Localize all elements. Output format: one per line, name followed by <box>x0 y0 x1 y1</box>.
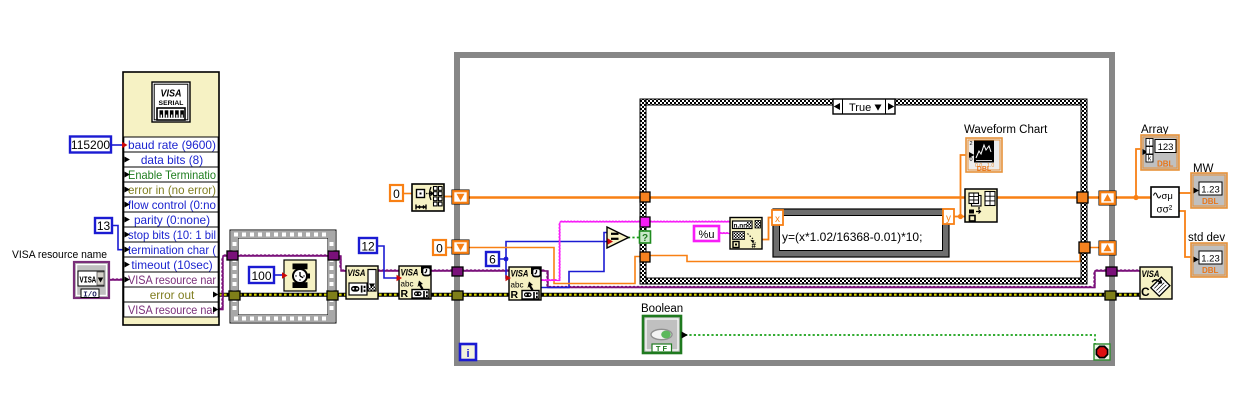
svg-text:Array: Array <box>1141 124 1169 136</box>
svg-text:error in (no error): error in (no error) <box>128 183 216 197</box>
svg-text:0: 0 <box>436 242 443 256</box>
property node row Enable Terminatio <box>124 167 218 182</box>
wire: blue 100 to Wait ms <box>274 274 283 276</box>
tunnel purple loop left <box>452 267 463 276</box>
svg-text:C: C <box>1141 285 1150 299</box>
svg-text:0: 0 <box>393 187 400 201</box>
constant 13 <box>95 218 112 233</box>
svg-text:123: 123 <box>1158 142 1174 153</box>
svg-text:6: 6 <box>489 253 496 267</box>
Equal? comparison node <box>607 227 629 248</box>
wire: orange mean output to MW indicator <box>1179 192 1192 194</box>
svg-text:baud rate (9600): baud rate (9600) <box>128 138 216 152</box>
wire: error cluster (olive/black dashed) from property node error out through sequence, VISA nodes, loop, to VISA Close <box>219 293 1141 297</box>
tunnel magenta case left (string) <box>640 217 650 227</box>
case selector terminal ? <box>640 231 651 243</box>
shift register left 2 (down arrow) <box>452 240 469 254</box>
formula node <box>773 209 949 257</box>
svg-text:VISA: VISA <box>161 88 182 100</box>
svg-text:y=(x*1.02/16368-0.01)*10;: y=(x*1.02/16368-0.01)*10; <box>782 230 922 244</box>
case selector label True <box>833 99 895 114</box>
svg-text:Waveform Chart: Waveform Chart <box>964 124 1048 136</box>
svg-text:VISA: VISA <box>401 268 419 278</box>
svg-text:R: R <box>511 289 519 301</box>
svg-text:DBL: DBL <box>977 166 992 173</box>
Waveform Chart terminal <box>966 138 1002 172</box>
tunnel purple sequence left <box>227 251 238 260</box>
svg-text:Enable Terminatio: Enable Terminatio <box>128 168 216 182</box>
svg-text:2: 2 <box>970 141 973 147</box>
Replace Array Subset function <box>965 189 997 222</box>
coercion arrow baud rate input <box>122 142 128 148</box>
constant 0 (scalar) <box>433 240 446 255</box>
VISA Configure Serial Port expanded node <box>123 72 219 325</box>
wire: VISA resource purple from property node bottom out, up into sequence, through VISA nodes into loop <box>218 256 511 310</box>
wire: magenta string %u to Scan From String <box>719 233 731 235</box>
tunnel olive loop left <box>452 291 463 300</box>
coercion arrow VISA Read 1 byte count <box>397 275 403 281</box>
svg-text:SERIAL: SERIAL <box>159 100 184 107</box>
property node row error out <box>124 287 218 302</box>
constant 12 <box>359 238 377 253</box>
svg-text:VISA resource nar: VISA resource nar <box>128 303 216 317</box>
Boolean control terminal <box>643 316 681 353</box>
svg-text:DBL: DBL <box>1202 197 1219 206</box>
svg-text:True: True <box>849 102 871 114</box>
wire: VISA resource purple from control to property node <box>107 279 125 281</box>
svg-text:VISA resource nar: VISA resource nar <box>128 273 216 287</box>
tunnel purple loop right <box>1106 267 1117 276</box>
svg-text:abc: abc <box>511 280 525 290</box>
svg-text:abc: abc <box>401 279 415 289</box>
svg-text:?: ? <box>642 233 648 244</box>
junction blue 6 <box>504 257 509 262</box>
svg-text:y: y <box>946 213 951 224</box>
property node row baud rate (9600) <box>124 137 218 152</box>
wire: orange array shift register row through case to Replace Array Subset and right shift register <box>468 196 966 199</box>
tunnel orange case right top (array) <box>1077 192 1088 203</box>
svg-text:1.23: 1.23 <box>1201 185 1220 196</box>
Mean StdDev Variance VI <box>1151 187 1179 217</box>
wire: blue 6 to VISA Read 2 byte count and Equal node <box>499 259 508 278</box>
svg-text:k: k <box>1148 156 1152 163</box>
wire: blue 115200 to baud rate <box>111 144 122 146</box>
case structure border (checker pattern) <box>640 99 1087 105</box>
loop iteration terminal i <box>460 344 476 360</box>
tunnel olive sequence right <box>327 291 338 300</box>
wire: blue return count VISA Read 2 to Equal top input <box>541 233 608 288</box>
wire: green boolean Equal out to case selector <box>628 237 641 239</box>
constant 0 (array init) <box>390 185 403 201</box>
svg-text:x: x <box>775 214 780 225</box>
svg-text:T F: T F <box>656 344 668 353</box>
VISA Close function <box>1140 267 1172 299</box>
constant 100 <box>249 267 274 283</box>
VISA resource name control <box>74 262 109 298</box>
wire: blue 12 to VISA Read 1 byte count <box>377 246 397 278</box>
svg-text:σμ: σμ <box>1162 191 1173 202</box>
tunnel orange case right bottom (scalar) <box>1079 242 1090 253</box>
coercion arrow Wait ms input <box>282 272 288 278</box>
svg-text:DBL: DBL <box>1202 266 1219 275</box>
wire: orange scan from string output to formula x input <box>762 218 773 240</box>
VISA Read 2 function <box>509 267 541 300</box>
svg-text:i: i <box>466 348 469 360</box>
svg-text:VISA: VISA <box>1142 269 1160 279</box>
while loop border <box>454 52 460 366</box>
property node row parity (0:none) <box>124 212 218 227</box>
svg-text:VISA: VISA <box>348 268 366 278</box>
svg-text:timeout (10sec): timeout (10sec) <box>131 258 212 272</box>
tunnel purple sequence right <box>328 251 339 260</box>
constant %u string <box>694 226 719 241</box>
svg-text:I/O: I/O <box>83 291 97 299</box>
constant 6 <box>486 252 499 266</box>
svg-text:error out: error out <box>150 288 195 302</box>
Array indicator terminal <box>1141 135 1179 170</box>
VISA Set I/O Buffer Size function <box>346 266 378 299</box>
svg-text:σσ²: σσ² <box>1157 205 1173 216</box>
svg-text:termination char (: termination char ( <box>128 243 216 257</box>
svg-text:%u: %u <box>699 229 715 241</box>
svg-text:VISA: VISA <box>511 269 529 279</box>
tunnel orange case left bottom (scalar) <box>640 252 650 262</box>
property node row stop bits (10: 1 bil <box>124 227 218 242</box>
svg-text:100: 100 <box>251 269 271 283</box>
svg-text:Boolean: Boolean <box>641 303 683 315</box>
tunnel olive sequence left <box>229 291 240 300</box>
junction orange y <box>958 214 963 219</box>
shift register right 2 (up arrow) <box>1099 241 1116 255</box>
svg-text:VISA: VISA <box>80 276 97 286</box>
svg-text:R: R <box>401 288 409 300</box>
formula node output y <box>943 209 954 224</box>
tunnel orange case left top (array) <box>640 192 650 202</box>
property node row flow control (0:no <box>124 197 218 212</box>
svg-text:115200: 115200 <box>71 138 110 152</box>
wire: VISA purple from VISA Read 2 out to loop right tunnel and VISA Close <box>541 271 1141 288</box>
VISA SERIAL header icon <box>152 82 190 122</box>
property node row timeout (10sec) <box>124 257 218 272</box>
svg-text:13: 13 <box>97 219 111 233</box>
MW indicator terminal <box>1191 173 1227 208</box>
constant 115200 <box>70 137 111 153</box>
svg-text:data bits (8): data bits (8) <box>141 153 203 167</box>
Scan From String function <box>730 218 762 250</box>
wire: orange scalar shift register 2 loop: dips under formula node <box>468 248 642 284</box>
svg-text:std dev: std dev <box>1188 232 1225 244</box>
coercion arrow VISA Read 2 byte count <box>506 275 512 281</box>
Wait ms function <box>284 260 316 291</box>
wire: orange 0 to Initialize Array <box>402 193 413 195</box>
Initialize Array function <box>412 184 444 211</box>
property node row VISA resource nar <box>124 302 218 317</box>
loop stop terminal <box>1094 344 1110 360</box>
wire: orange loop out to Array indicator and mean node <box>1116 196 1151 199</box>
flat sequence structure filmstrip border <box>230 230 336 323</box>
svg-text:0: 0 <box>970 157 973 163</box>
svg-text:12: 12 <box>361 240 375 254</box>
svg-text:1.23: 1.23 <box>1201 254 1220 265</box>
svg-text:n.nn: n.nn <box>734 223 748 230</box>
wire: orange 0 const 2 to left shift register 2 <box>446 247 454 249</box>
std dev indicator terminal <box>1191 243 1227 277</box>
svg-text:flow control (0:no: flow control (0:no <box>128 198 216 212</box>
formula node input x <box>772 210 783 225</box>
shift register left 1 (down arrow) <box>452 190 469 204</box>
svg-text:VISA resource name: VISA resource name <box>12 249 107 261</box>
svg-text:#: # <box>752 241 757 250</box>
property node row error in (no error) <box>124 182 218 197</box>
wire: orange Initialize Array to left shift register 1 <box>443 196 454 198</box>
tunnel olive loop right <box>1105 291 1116 300</box>
wire: orange formula y output to junction, chart and Replace Array Subset <box>954 216 966 218</box>
property node row data bits (8) <box>124 152 218 167</box>
property node row termination char ( <box>124 242 218 257</box>
svg-text:parity (0:none): parity (0:none) <box>134 213 210 227</box>
property node row VISA resource nar <box>124 272 218 287</box>
coercion arrow Equal input <box>608 238 614 244</box>
wire: orange std dev output to std dev indicator <box>1179 211 1192 257</box>
junction orange array out <box>1133 195 1138 200</box>
VISA Read 1 function <box>399 266 431 299</box>
svg-text:DBL: DBL <box>1157 160 1174 169</box>
shift register right 1 (up arrow) <box>1099 191 1116 205</box>
svg-text:j: j <box>1148 148 1151 155</box>
wire: magenta string VISA Read 2 buffer out to case tunnel and Scan From String <box>541 222 731 281</box>
wire: blue 13 to termination char <box>112 226 125 250</box>
wire: green boolean control to loop stop terminal <box>685 335 1095 345</box>
svg-text:stop bits (10: 1 bil: stop bits (10: 1 bil <box>128 228 216 242</box>
